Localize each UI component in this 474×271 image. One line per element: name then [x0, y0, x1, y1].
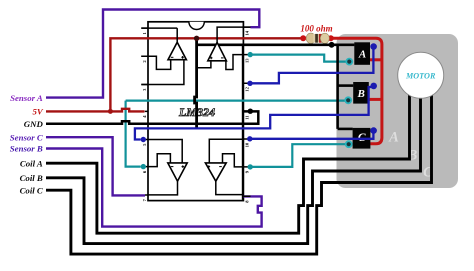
node driver C gate — [370, 127, 377, 134]
IC pin stubs right 14-8 — [243, 27, 250, 196]
junction resistor right — [328, 35, 334, 41]
svg-text:13: 13 — [245, 58, 250, 63]
svg-text:Coil A: Coil A — [20, 158, 43, 168]
wire pin9 teal to driver C — [250, 144, 346, 167]
op-amp U1A triangle — [168, 42, 186, 60]
wire pin13 teal to driver A — [250, 55, 346, 62]
transistor Q2 (B) — [353, 82, 369, 104]
wire resistor lead — [303, 37, 331, 39]
node pin10 — [247, 136, 252, 141]
node driver A gate — [370, 43, 377, 50]
svg-text:12: 12 — [245, 86, 250, 91]
motor driver panel — [337, 34, 459, 188]
resistor R1 100 ohm — [306, 33, 315, 43]
op-amp U1D triangle — [205, 163, 226, 181]
wire pin10 blue to driver C gate — [250, 132, 374, 139]
svg-text:14: 14 — [245, 30, 250, 35]
wire sensor-C net: teal vertical with pin6 branch and long run to driver B — [126, 101, 141, 167]
svg-text:A: A — [388, 130, 399, 146]
wire op4 output to pin 8 — [216, 181, 244, 194]
node pin12 — [247, 81, 252, 86]
svg-text:10: 10 — [245, 142, 250, 147]
op-amp U1B triangle — [208, 42, 227, 60]
wire Sensor C to pin 7 — [46, 137, 145, 195]
svg-text:5V: 5V — [33, 107, 44, 117]
wire 5V rail to resistor — [110, 38, 303, 111]
node driver A input ring — [346, 59, 352, 65]
node driver C input ring — [346, 141, 352, 147]
node pin9 — [248, 164, 253, 169]
transistor Q3 (C) — [353, 128, 371, 149]
svg-text:B: B — [357, 88, 365, 100]
wire motor phase B to Coil B — [46, 94, 421, 244]
junction resistor left — [300, 35, 306, 41]
node driver B gate — [370, 83, 377, 90]
svg-text:Coil C: Coil C — [20, 185, 43, 195]
wire pin5 to op3 input — [148, 140, 182, 163]
op-amp U1C triangle — [168, 163, 187, 181]
node pin6 — [141, 164, 146, 169]
node driver B input ring — [345, 97, 351, 103]
svg-text:100 ohm: 100 ohm — [300, 24, 332, 34]
wire red rail to transistor collectors — [331, 38, 382, 144]
wire 5V to pin 4 with hop over teal — [46, 109, 145, 112]
thick wire op2 plus net with jog over teal — [195, 38, 197, 129]
op-amp input polarity marks — [171, 56, 224, 168]
transistor Q1 (A) — [354, 42, 370, 65]
svg-text:GND: GND — [24, 119, 44, 129]
wire pin6 to op3 input — [148, 154, 170, 167]
wire pin13 to op2 inverting input — [226, 55, 244, 70]
junction thick net on 5V rail — [194, 36, 199, 41]
wire pin2 to op1 inverting input — [141, 56, 170, 69]
IC pin stubs left 1-7 — [141, 28, 148, 195]
wire motor phase C to Coil C — [46, 90, 432, 254]
wire GND label to pin 11 loop, hop over teal — [46, 111, 258, 123]
node pin13 — [248, 52, 253, 57]
junction pin 11 — [248, 109, 253, 114]
pin numbers — [142, 30, 250, 202]
svg-text:Coil B: Coil B — [20, 173, 43, 183]
left terminal labels — [10, 93, 44, 196]
wire pin3 to op1 non-inverting input — [141, 60, 184, 85]
wire op3 output to pin 7 — [148, 181, 178, 195]
svg-text:MOTOR: MOTOR — [405, 72, 436, 81]
svg-text:Sensor A: Sensor A — [10, 93, 43, 103]
wire pin12 blue to driver A gate — [250, 49, 373, 83]
wire motor phase A to Coil A — [46, 90, 410, 233]
svg-text:Sensor C: Sensor C — [10, 132, 43, 142]
junction 5V T — [108, 109, 113, 114]
svg-text:Sensor B: Sensor B — [10, 144, 43, 154]
IC notch — [189, 22, 204, 30]
wire pin9 to op4 input — [223, 154, 244, 167]
node pin5 — [141, 137, 146, 142]
op-amp IC U1 LM324 body — [148, 22, 243, 201]
wire Sensor B to pin 8 — [46, 149, 262, 227]
wire pin10 to op4 input — [209, 139, 243, 163]
motor M1 — [398, 52, 444, 98]
wire op2 output to pin 14 — [217, 27, 250, 42]
svg-text:11: 11 — [245, 115, 250, 120]
junction GND near driver A — [329, 42, 335, 48]
wire Sensor A to pin 14 — [46, 10, 259, 98]
wire op1 output to pin 1 — [141, 28, 177, 42]
wire pin5 blue to driver B gate — [135, 87, 372, 140]
wire GND distribution to drivers — [196, 43, 355, 46]
svg-text:A: A — [358, 49, 366, 61]
